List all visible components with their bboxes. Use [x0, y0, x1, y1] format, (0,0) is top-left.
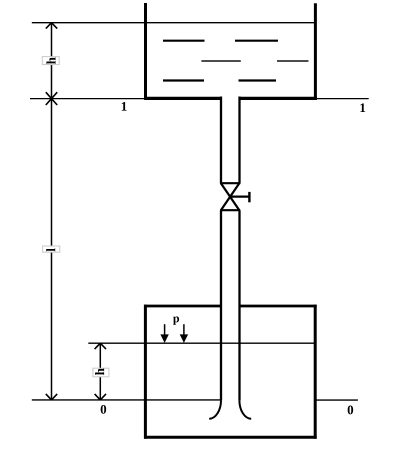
valve top edge	[220, 182, 240, 184]
section line 1-1 left segment	[30, 98, 146, 100]
pipe outlet flare right	[239, 400, 251, 419]
water surface line (upper tank, extended left)	[32, 22, 315, 24]
valve diagonal 1	[221, 183, 239, 210]
lower tank right wall	[314, 305, 317, 439]
lower tank liquid surface line (extended left)	[88, 342, 315, 344]
label l (middle, rotated)	[46, 248, 55, 251]
water dash row3 left	[163, 79, 204, 81]
section line 1-1 right segment	[317, 98, 369, 100]
crossed arrowheads at line 1-1	[46, 92, 57, 105]
datum line 0-0 left segment	[32, 399, 220, 401]
lower tank bottom edge	[144, 436, 317, 439]
pressure arrow 2 head	[180, 334, 188, 343]
water dash row1 left	[163, 40, 205, 42]
water dash row3 right	[239, 79, 277, 81]
arrowhead down at line 0-0 (left dim)	[46, 394, 57, 400]
valve handle T-bar	[248, 192, 250, 202]
pipe right wall lower segment	[238, 210, 240, 400]
arrowhead up at lower surface	[95, 343, 106, 349]
label 0 (left)	[101, 405, 107, 414]
label box h (top)	[42, 57, 59, 65]
pressure arrow 1 stem	[164, 324, 166, 335]
water dash row1 right	[235, 40, 278, 42]
pipe outlet flare left	[209, 400, 221, 419]
water dash row2 right (gray)	[277, 60, 309, 62]
label box l (middle)	[43, 246, 60, 252]
label 1 (right)	[360, 103, 365, 112]
pipe left wall upper segment	[220, 97, 222, 184]
left dimension line (vertical)	[51, 23, 53, 400]
label 1 (left)	[122, 102, 127, 111]
valve stem	[230, 196, 249, 198]
water dash row2 left (gray)	[201, 60, 240, 62]
pressure arrow 1 head	[160, 334, 168, 343]
lower tank top edge left segment	[144, 305, 222, 308]
upper tank left wall	[144, 3, 147, 100]
datum line 0-0 right segment	[315, 399, 358, 401]
label box h (lower)	[93, 368, 109, 377]
upper tank bottom right segment	[239, 97, 317, 100]
label 0 (right)	[348, 406, 354, 415]
pressure arrow 2 stem	[183, 324, 185, 335]
label p	[173, 317, 179, 325]
valve bottom edge	[220, 209, 240, 211]
label h (lower, rotated)	[95, 368, 104, 375]
lower tank top edge right segment	[239, 305, 317, 308]
upper tank right wall	[314, 3, 317, 100]
pipe left wall lower segment	[220, 210, 222, 400]
upper tank bottom left segment	[144, 97, 222, 100]
arrowhead down at 0-0 (lower dim)	[95, 394, 106, 400]
arrowhead up at water surface	[46, 23, 57, 29]
valve diagonal 2	[221, 183, 239, 210]
label h (top, rotated)	[46, 57, 55, 64]
right dimension line h (lower)	[99, 343, 101, 400]
pipe right wall upper segment	[238, 97, 240, 184]
lower tank left wall	[144, 305, 147, 439]
